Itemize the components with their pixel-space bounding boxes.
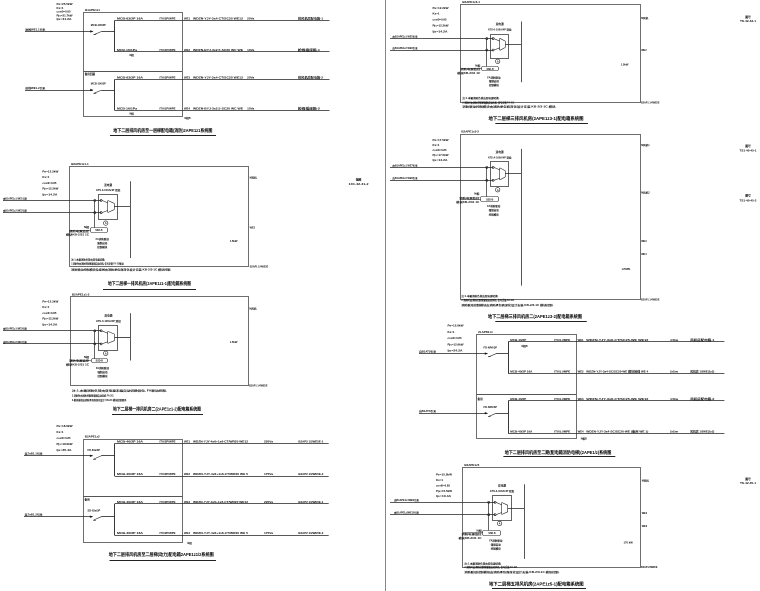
svg-text:自ZnB1.1引来: 自ZnB1.1引来 xyxy=(25,452,44,456)
svg-text:模块KB-2/31 1C: 模块KB-2/31 1C xyxy=(66,233,89,237)
load rating xyxy=(230,239,238,243)
panel label B2APE1z1-1 xyxy=(71,162,89,166)
panel section divider xyxy=(83,496,183,498)
breaker FD-NPA/3P xyxy=(484,346,509,357)
svg-text:Ijs=14.2A: Ijs=14.2A xyxy=(432,29,448,33)
svg-text:WE2: WE2 xyxy=(184,48,191,52)
incoming feeder data xyxy=(42,170,59,197)
breaker MCB-100/3P xyxy=(91,23,115,35)
fire-supervision module SSD-B xyxy=(481,197,499,202)
wire incoming supply 2 xyxy=(390,50,493,52)
ATS label xyxy=(488,150,512,159)
svg-text:WE4: WE4 xyxy=(184,531,191,535)
wire incoming 自ZnB1.1引来 xyxy=(24,455,93,457)
svg-text:Kx=1: Kx=1 xyxy=(57,430,65,434)
node supply 2 xyxy=(486,179,494,181)
wire ATS output xyxy=(505,173,522,175)
svg-text:175Va: 175Va xyxy=(264,531,274,535)
node link bus xyxy=(486,167,488,196)
svg-text:自B1AT4引来: 自B1AT4引来 xyxy=(419,409,437,413)
svg-text:辅图: 辅图 xyxy=(356,177,362,181)
bus bar xyxy=(508,401,510,433)
svg-text:TS1-40-45-1: TS1-40-45-1 xyxy=(740,150,758,153)
svg-text:由B1APE1z2WE10引来: 由B1APE1z2WE10引来 xyxy=(394,511,419,515)
FA control note xyxy=(487,204,501,217)
svg-text:ITU/LUMPE: ITU/LUMPE xyxy=(554,369,570,373)
panel notes xyxy=(70,258,172,272)
incoming label 自B1AT4引来 xyxy=(419,409,437,413)
svg-text:FA消防联动: FA消防联动 xyxy=(489,539,503,543)
svg-text:地下二层梯一排风机房二(2APE1z1-2)配电箱系统图: 地下二层梯一排风机房二(2APE1z1-2)配电箱系统图 xyxy=(113,406,201,413)
wire incoming supply 2 xyxy=(390,514,495,516)
svg-text:由B1APE1z1 WE1引来: 由B1APE1z1 WE1引来 xyxy=(3,196,27,200)
svg-text:排风机房配电箱-2: 排风机房配电箱-2 xyxy=(298,76,324,80)
node supply 2 xyxy=(94,212,102,214)
svg-text:WE1: WE1 xyxy=(578,338,585,342)
outgoing tag WE2 xyxy=(642,512,648,515)
ammeter A1 xyxy=(497,521,501,525)
svg-text:N相: N相 xyxy=(187,541,192,545)
svg-text:LP9PE: LP9PE xyxy=(622,267,631,271)
svg-text:ATS-0-100A/4P 双投: ATS-0-100A/4P 双投 xyxy=(488,27,512,31)
feeder row WE1 xyxy=(115,440,329,444)
svg-text:A: A xyxy=(497,60,499,63)
fire-supervision module SSD-B xyxy=(482,67,499,71)
outgoing tag M风机 xyxy=(642,479,650,483)
node supply 1 xyxy=(486,38,494,40)
svg-text:模块KB-2/31 1C: 模块KB-2/31 1C xyxy=(456,200,479,204)
svg-text:FA消防联动: FA消防联动 xyxy=(96,366,110,370)
wire to supervision module xyxy=(460,199,481,201)
svg-text:Kx=1: Kx=1 xyxy=(57,6,65,10)
incoming label 自ZnB1.1引来 xyxy=(25,452,44,456)
svg-text:WDZN-YJY-4x6+1x6-CT/WR20 WE12: WDZN-YJY-4x6+1x6-CT/WR20 WE12 xyxy=(193,440,249,444)
wire to supervision module xyxy=(71,360,92,362)
svg-text:175Va: 175Va xyxy=(264,472,274,476)
svg-text:地下二层排风机房至二层梯(动力)配电箱2APE1z1/2系统: 地下二层排风机房至二层梯(动力)配电箱2APE1z1/2系统图 xyxy=(109,551,214,558)
drawing reference tag 2 xyxy=(740,144,758,153)
svg-text:强制启动: 强制启动 xyxy=(489,208,500,212)
circuit tag B2AP1 1/4WE5E xyxy=(641,102,660,105)
svg-text:WDZN-BYJ-3x2.5-SC20 WC WE: WDZN-BYJ-3x2.5-SC20 WC WE xyxy=(193,48,243,52)
svg-text:Kx=1: Kx=1 xyxy=(433,143,441,147)
wire incoming supply 2 xyxy=(390,180,493,182)
node link bus xyxy=(94,331,96,359)
bus bar xyxy=(114,21,116,52)
svg-text:WE2: WE2 xyxy=(641,49,647,52)
svg-text:WE3: WE3 xyxy=(578,397,585,401)
fire-supervision module SSD-B xyxy=(483,531,501,536)
node link bus xyxy=(94,200,96,227)
svg-text:WE4: WE4 xyxy=(578,429,585,433)
section label 备用 xyxy=(477,397,484,401)
node link bus xyxy=(488,502,490,530)
svg-text:FD-NPA/3P: FD-NPA/3P xyxy=(484,405,498,409)
incoming label 由B1APE1z2 xyxy=(3,209,27,213)
svg-text:消防联动控制模块由消防承包商深化设计安装 KB-2/3-1C: 消防联动控制模块由消防承包商深化设计安装 KB-2/3-1C 模块. xyxy=(461,105,557,109)
svg-text:由B1APE1z1 WE3引来: 由B1APE1z1 WE3引来 xyxy=(3,327,27,331)
svg-text:ITU/LUMPE: ITU/LUMPE xyxy=(554,429,570,433)
svg-text:自ZnB1.2引来: 自ZnB1.2引来 xyxy=(25,513,44,517)
incoming feeder data xyxy=(432,138,449,162)
svg-text:2x1kw: 2x1kw xyxy=(670,429,679,433)
svg-text:注:1.本箱消防负荷由双电源切换.: 注:1.本箱消防负荷由双电源切换. xyxy=(71,258,105,262)
svg-text:N相: N相 xyxy=(84,225,90,229)
svg-text:cosΦ=0.85: cosΦ=0.85 xyxy=(42,181,57,185)
svg-text:消防联动控制模块由消防承包商深化设计安装 KB-2/3-1C: 消防联动控制模块由消防承包商深化设计安装 KB-2/3-1C 模块控制. xyxy=(463,570,560,574)
wire to supervision module xyxy=(463,532,483,534)
svg-text:双电源: 双电源 xyxy=(104,183,112,187)
svg-text:M风机1: M风机1 xyxy=(641,143,650,147)
wire ATS output xyxy=(505,44,522,46)
bus bar xyxy=(508,342,510,374)
svg-text:WDZN-YJY-3x4-SC/SC20-WE (备用 WE: WDZN-YJY-3x4-SC/SC20-WE (备用 WE 1) xyxy=(586,429,648,433)
ammeter A1 xyxy=(104,351,108,355)
svg-text:FA消防联动: FA消防联动 xyxy=(487,75,501,79)
svg-text:MCB-40/2P: MCB-40/2P xyxy=(510,338,526,342)
ATS changeover switch B2APE1z3-2-ATS xyxy=(491,162,509,187)
svg-text:cosΦ=0.85: cosΦ=0.85 xyxy=(42,311,57,315)
node supply 2 xyxy=(486,49,494,51)
svg-text:WE1: WE1 xyxy=(184,17,191,21)
svg-text:1.5kW: 1.5kW xyxy=(230,340,238,344)
svg-text:2.消防时由消防控制室强制启动风机, 信号反馈 FA-2/3: 2.消防时由消防控制室强制启动风机, 信号反馈 FA-2/3. xyxy=(461,298,514,302)
breaker FD-63a/3P xyxy=(88,448,115,459)
svg-text:B2APE1z1-1: B2APE1z1-1 xyxy=(71,162,89,166)
panel label B2APE1z2 xyxy=(85,435,100,439)
svg-text:220Va: 220Va xyxy=(264,440,274,444)
feeder row WE2 xyxy=(508,369,724,373)
svg-text:控制模块: 控制模块 xyxy=(489,213,500,217)
wire to supervision module xyxy=(461,68,482,70)
svg-text:排风机房配电箱-1: 排风机房配电箱-1 xyxy=(298,17,324,21)
svg-text:Pjs=12.2kW: Pjs=12.2kW xyxy=(433,24,450,28)
svg-text:由B1APE1z2 WE8引来: 由B1APE1z2 WE8引来 xyxy=(393,176,418,180)
svg-text:ITU/2P/WPE: ITU/2P/WPE xyxy=(160,440,176,444)
panel label B1APE1z1 xyxy=(85,8,100,12)
load rating xyxy=(622,267,631,271)
outgoing tag WE3 xyxy=(641,240,647,243)
bus bar xyxy=(130,181,132,258)
FA control note xyxy=(487,75,501,87)
incoming feeder data xyxy=(42,300,59,327)
svg-text:SSD-B: SSD-B xyxy=(95,230,102,232)
svg-text:模块KB-2/31 1C: 模块KB-2/31 1C xyxy=(459,536,482,540)
panel enclosure B2APE1z2 xyxy=(84,440,183,543)
svg-text:A: A xyxy=(105,222,107,225)
svg-text:双电源: 双电源 xyxy=(496,150,504,154)
svg-text:B1APE1z1: B1APE1z1 xyxy=(85,8,100,12)
svg-text:消防电源监控: 消防电源监控 xyxy=(458,196,480,200)
svg-text:WDZN-YJY-3x4-CT/SC25 WE12: WDZN-YJY-3x4-CT/SC25 WE12 xyxy=(193,76,244,80)
outgoing tag M风机 xyxy=(249,307,257,311)
svg-text:ATS-0-100A/4P 双投: ATS-0-100A/4P 双投 xyxy=(96,188,121,192)
svg-text:MCB-100/3P: MCB-100/3P xyxy=(91,23,106,27)
svg-text:MCB-100/3P: MCB-100/3P xyxy=(91,82,106,86)
bus bar xyxy=(521,22,523,83)
svg-text:Kx=1: Kx=1 xyxy=(436,478,444,482)
outgoing tag WE3 xyxy=(642,525,648,528)
ammeter A1 xyxy=(496,188,500,192)
wire incoming 进线WE1.1引来 xyxy=(25,30,93,32)
svg-text:由B1APE1z1 WE7引来: 由B1APE1z1 WE7引来 xyxy=(393,163,418,167)
svg-text:B2AP2 1/2WE5E-2: B2AP2 1/2WE5E-2 xyxy=(298,472,324,476)
feeder row WE4 xyxy=(508,429,724,440)
diagram title 地下二层梯一排风机房二(2A xyxy=(112,406,203,415)
svg-text:Pe=18.6kW: Pe=18.6kW xyxy=(57,424,74,428)
incoming label 由B1APE1z2W xyxy=(394,511,419,515)
svg-text:地下二层梯三排风机房二(2APE1z3-2)配电箱系统图: 地下二层梯三排风机房二(2APE1z3-2)配电箱系统图 xyxy=(488,313,582,320)
incoming label 由B1APE1z2 xyxy=(3,340,27,344)
wire incoming supply 1 xyxy=(390,167,493,169)
panel section divider xyxy=(477,394,577,396)
svg-text:WDZN-YJY-3x4-SC/SC20-WE 模块接线 W: WDZN-YJY-3x4-SC/SC20-WE 模块接线 WE 4 xyxy=(586,369,649,373)
svg-text:N相: N相 xyxy=(475,64,481,68)
svg-text:强制启动: 强制启动 xyxy=(491,543,502,547)
panel enclosure B1APE1z1 xyxy=(84,13,183,117)
incoming label 由B1APE1z2 xyxy=(393,176,418,180)
wire incoming supply 1 xyxy=(3,330,101,332)
incoming feeder data xyxy=(432,6,449,34)
svg-text:WDZN-YJY-3x6-CT/SC25-WE WE12: WDZN-YJY-3x6-CT/SC25-WE WE12 xyxy=(586,397,649,401)
wire incoming supply 2 xyxy=(3,212,101,214)
svg-text:cosΦ=0.85: cosΦ=0.85 xyxy=(433,18,448,22)
svg-text:模块KB-2/31 1C: 模块KB-2/31 1C xyxy=(457,71,480,75)
svg-text:ITU/2P/WPE: ITU/2P/WPE xyxy=(160,500,176,504)
circuit tag B2AP1 1/4WE5E xyxy=(250,265,269,268)
svg-text:图号: 图号 xyxy=(745,15,751,19)
svg-text:自B1AT3引来: 自B1AT3引来 xyxy=(419,350,437,354)
node supply 2 xyxy=(94,343,102,345)
module note xyxy=(459,528,483,540)
svg-text:风机房 1/2WE(2x2): 风机房 1/2WE(2x2) xyxy=(690,429,714,433)
svg-text:MCB-40/2P 16A: MCB-40/2P 16A xyxy=(117,440,143,444)
svg-text:cosΦ=0.85: cosΦ=0.85 xyxy=(436,483,451,487)
outgoing tag WE2 xyxy=(250,227,256,230)
svg-text:MCB-63/2P 16A: MCB-63/2P 16A xyxy=(117,76,143,80)
incoming feeder data xyxy=(56,2,73,21)
incoming feeder data xyxy=(436,473,453,499)
svg-text:WE4: WE4 xyxy=(641,253,647,256)
outgoing tag WE4 xyxy=(641,253,647,256)
outgoing tag M风机1 xyxy=(641,143,650,147)
svg-text:Pe=12.2kW: Pe=12.2kW xyxy=(42,170,59,174)
svg-text:2.消防时由消防控制室强制启动风机, 信号反馈 FA-2/3: 2.消防时由消防控制室强制启动风机, 信号反馈 FA-2/3联动. xyxy=(71,262,124,266)
svg-text:模块KB-2/31 1C: 模块KB-2/31 1C xyxy=(66,362,89,366)
node supply 2 xyxy=(488,514,496,516)
svg-text:检修插座箱-1: 检修插座箱-1 xyxy=(298,48,321,52)
svg-text:Pjs=18.6kW: Pjs=18.6kW xyxy=(57,442,74,446)
svg-text:注:1.本箱消防负荷由双电源切换.: 注:1.本箱消防负荷由双电源切换. xyxy=(461,294,498,298)
wire ATS output xyxy=(114,206,131,208)
outgoing tag WE2 xyxy=(641,49,647,52)
svg-text:ITU/LUMPE: ITU/LUMPE xyxy=(554,397,570,401)
svg-text:TS-42-43-1: TS-42-43-1 xyxy=(740,20,757,23)
panel notes xyxy=(72,388,167,402)
svg-text:M风机: M风机 xyxy=(642,479,650,483)
ATS changeover switch B2APE1z1-1-ATS xyxy=(99,195,118,220)
svg-text:B2APE1z2: B2APE1z2 xyxy=(85,435,100,439)
svg-text:FA消防联动: FA消防联动 xyxy=(487,204,501,208)
svg-text:图号: 图号 xyxy=(745,477,751,481)
panel notes xyxy=(461,96,557,109)
feeder row WE1 xyxy=(508,338,724,348)
wire incoming 进线WE1.2引来 xyxy=(25,89,93,91)
svg-text:cosΦ=0.85: cosΦ=0.85 xyxy=(57,10,72,14)
svg-text:ITU/2P/WPE: ITU/2P/WPE xyxy=(160,472,176,476)
svg-text:备用: 备用 xyxy=(477,397,484,401)
breaker SD-63a/3P xyxy=(88,509,115,521)
feeder row WE4 xyxy=(115,106,330,115)
svg-text:MCB-40/2P 16A: MCB-40/2P 16A xyxy=(117,500,143,504)
section label 备用 xyxy=(84,498,91,502)
svg-text:A: A xyxy=(499,523,501,526)
svg-text:Pjs=21.7kW: Pjs=21.7kW xyxy=(57,13,74,17)
svg-text:地下二层梯五排风机房(2APE1z5-1)配电箱系统图: 地下二层梯五排风机房(2APE1z5-1)配电箱系统图 xyxy=(489,581,584,588)
panel label B2APE1z3-1 xyxy=(462,0,480,4)
svg-text:MCB-16/1Pa: MCB-16/1Pa xyxy=(117,106,138,110)
svg-text:2.消防时由消防控制室强制启动风机 FA-2/3.: 2.消防时由消防控制室强制启动风机 FA-2/3. xyxy=(72,394,114,398)
svg-text:WDZN-YJY-4x6+1x6-CT/WR20 WE 5: WDZN-YJY-4x6+1x6-CT/WR20 WE 5 xyxy=(193,472,249,476)
svg-text:N相: N相 xyxy=(477,528,483,532)
svg-text:N相: N相 xyxy=(130,53,135,57)
feeder row WE4 xyxy=(115,531,329,545)
svg-text:地下二层排风机房至二期(配电箱消防电梯)(2APE1/z)系: 地下二层排风机房至二期(配电箱消防电梯)(2APE1/z)系统图 xyxy=(505,449,612,456)
ATS label xyxy=(96,183,121,192)
wire incoming supply 2 xyxy=(3,343,101,345)
svg-text:备用回路: 备用回路 xyxy=(84,72,96,76)
svg-text:风机房配电箱-2: 风机房配电箱-2 xyxy=(690,397,715,401)
svg-text:Pe=12.2kW: Pe=12.2kW xyxy=(433,6,450,10)
svg-text:B2AP2 1/2WE5E-1: B2AP2 1/2WE5E-1 xyxy=(298,500,324,504)
wire incoming supply 1 xyxy=(3,200,101,202)
breaker FD-NPA/3P xyxy=(484,405,509,417)
ATS label xyxy=(96,314,122,323)
svg-text:控制模块: 控制模块 xyxy=(491,547,502,551)
svg-text:图号: 图号 xyxy=(745,144,751,148)
incoming label 由B1APE1z1W xyxy=(394,498,419,502)
bus bar xyxy=(524,484,526,559)
diagram title 地下二层梯一排风机房(2AP xyxy=(103,280,196,289)
panel enclosure B2APE1z1-1 xyxy=(70,167,249,267)
svg-text:WDZN-YJY-4x6+1x6-CT/WR20 WE12: WDZN-YJY-4x6+1x6-CT/WR20 WE12 xyxy=(193,500,249,504)
incoming label 由B1APE1z1 xyxy=(393,35,418,39)
svg-text:ITU/2P/WPE: ITU/2P/WPE xyxy=(160,531,176,535)
svg-text:B2AP2 1/2WE5E-1: B2AP2 1/2WE5E-1 xyxy=(298,440,324,444)
svg-text:WE3: WE3 xyxy=(642,525,648,528)
svg-text:由B1APE1z1 WE5引来: 由B1APE1z1 WE5引来 xyxy=(393,35,418,39)
svg-text:10Va: 10Va xyxy=(247,48,255,52)
svg-text:Ijs=24.2A: Ijs=24.2A xyxy=(447,349,463,353)
svg-text:注:1.本箱消防负荷由双电源切换.: 注:1.本箱消防负荷由双电源切换. xyxy=(462,96,499,100)
FA control note xyxy=(489,539,503,551)
svg-text:SSD-B: SSD-B xyxy=(488,533,495,535)
svg-text:Pe=12.2kW: Pe=12.2kW xyxy=(42,300,59,304)
svg-text:ITU/1P/WPE: ITU/1P/WPE xyxy=(160,48,176,52)
panel section divider xyxy=(84,71,183,73)
panel enclosure 2LAPD1z1 xyxy=(477,335,577,439)
svg-text:B2AP1 1/4WE5E: B2AP1 1/4WE5E xyxy=(641,298,660,301)
bus bar xyxy=(521,149,523,286)
svg-text:TS1-40-45-2: TS1-40-45-2 xyxy=(740,200,758,203)
svg-text:WE2: WE2 xyxy=(184,472,191,476)
svg-text:WE4: WE4 xyxy=(184,106,191,110)
svg-text:消防电源监控: 消防电源监控 xyxy=(459,67,481,71)
svg-text:B2AP1 1/4WE5E: B2AP1 1/4WE5E xyxy=(250,265,269,268)
svg-text:Ijs=14.2A: Ijs=14.2A xyxy=(42,322,58,326)
svg-text:Kx=1: Kx=1 xyxy=(448,330,456,334)
module note xyxy=(457,64,481,75)
svg-text:2.消防时由消防控制室强制启动风机, 信号反馈 FA-2/3: 2.消防时由消防控制室强制启动风机, 信号反馈 FA-2/3. xyxy=(464,565,517,569)
svg-text:由B1APE1z2 WE6引来: 由B1APE1z2 WE6引来 xyxy=(393,46,418,50)
panel notes xyxy=(460,294,554,307)
svg-text:Pjs=12.6kW: Pjs=12.6kW xyxy=(448,342,465,346)
svg-text:Kx=1: Kx=1 xyxy=(42,175,50,179)
circuit tag B2AP1/4WE5E xyxy=(641,566,658,569)
circuit tag B2AP1 1/4WE5E xyxy=(641,298,660,301)
svg-text:WE3: WE3 xyxy=(184,76,191,80)
svg-text:注:1.本箱消防负荷由双电源切换.: 注:1.本箱消防负荷由双电源切换. xyxy=(464,561,501,565)
wire ATS output xyxy=(115,337,131,339)
svg-text:Pjs=17.5kW: Pjs=17.5kW xyxy=(433,153,450,157)
node link bus xyxy=(486,39,488,67)
wire incoming 自B1AT3引来 xyxy=(419,352,488,354)
svg-text:20Va: 20Va xyxy=(247,76,255,80)
svg-text:Ijs=35.4A: Ijs=35.4A xyxy=(56,448,72,452)
column divider xyxy=(385,0,387,591)
outgoing tag M风机 xyxy=(250,176,258,180)
svg-text:M风机: M风机 xyxy=(641,16,649,20)
incoming label 由B1APE1z1 xyxy=(3,327,27,331)
incoming label 由B1APE1z1 xyxy=(3,196,27,200)
svg-text:SD-63a/3P: SD-63a/3P xyxy=(88,509,101,513)
svg-text:MCB-63/2P 16A: MCB-63/2P 16A xyxy=(117,17,143,21)
svg-text:20Va: 20Va xyxy=(247,17,255,21)
breaker MCB-100/3P xyxy=(91,82,115,94)
svg-text:双电源: 双电源 xyxy=(496,22,504,26)
svg-text:1X1-42-41-2: 1X1-42-41-2 xyxy=(349,183,370,186)
outgoing tag M风机2 xyxy=(641,190,650,194)
svg-text:B2APE1z3-1: B2APE1z3-1 xyxy=(462,0,480,4)
svg-text:cosΦ=0.85: cosΦ=0.85 xyxy=(433,148,448,152)
wire incoming supply 1 xyxy=(390,38,493,40)
outgoing tag M风机 xyxy=(641,16,649,20)
svg-text:由B1APE1z2 WE2引来: 由B1APE1z2 WE2引来 xyxy=(3,209,27,213)
svg-text:B2AP1 1/4WE5E: B2AP1 1/4WE5E xyxy=(249,384,268,387)
svg-text:cosΦ=0.85: cosΦ=0.85 xyxy=(448,336,463,340)
svg-text:M风机: M风机 xyxy=(249,307,257,311)
bus bar xyxy=(114,80,116,111)
circuit tag B2AP1 1/4WE5E xyxy=(249,384,268,387)
svg-text:WDZN-BYJ-3x2.5-SC20 WC WE: WDZN-BYJ-3x2.5-SC20 WC WE xyxy=(193,106,243,110)
diagram title 地下二层排风机房至二期(配电 xyxy=(503,449,615,457)
svg-text:地下二层排风机房至一层梯配电箱(消防)2APE1z1系统图: 地下二层排风机房至一层梯配电箱(消防)2APE1z1系统图 xyxy=(113,127,212,134)
svg-text:地下二层梯三排风机房(2APE1z3-1)配电箱系统图: 地下二层梯三排风机房(2APE1z3-1)配电箱系统图 xyxy=(489,115,584,122)
svg-text:WDZN-YJY-4x6+1x6-CT/WR20 WE 5: WDZN-YJY-4x6+1x6-CT/WR20 WE 5 xyxy=(193,531,249,535)
svg-text:注:1.本箱消防负荷由双电源末端自动切换供电, FA联动控制: 注:1.本箱消防负荷由双电源末端自动切换供电, FA联动控制. xyxy=(72,388,167,392)
svg-text:Pjs=12.2kW: Pjs=12.2kW xyxy=(42,187,59,191)
fire-supervision module SSD-B xyxy=(92,359,108,363)
ATS changeover switch B2APE1z3-1-ATS xyxy=(491,35,509,59)
incoming feeder data xyxy=(56,424,73,452)
panel enclosure B2APE1z5 xyxy=(463,468,641,568)
svg-text:地下二层梯一排风机房(2APE1z1-1)配电箱系统图: 地下二层梯一排风机房(2APE1z1-1)配电箱系统图 xyxy=(108,280,191,287)
svg-text:消防联动控制模块及接线由消防承包商深化设计安装 KB-2/3: 消防联动控制模块及接线由消防承包商深化设计安装 KB-2/3-1C 模块控制. xyxy=(70,268,172,272)
svg-text:Ijs=10.4A: Ijs=10.4A xyxy=(436,494,452,498)
panel label B2APE1z1-2 xyxy=(72,292,90,296)
incoming label 自ZnB1.2引来 xyxy=(25,513,44,517)
feeder row WE3 xyxy=(508,397,724,401)
